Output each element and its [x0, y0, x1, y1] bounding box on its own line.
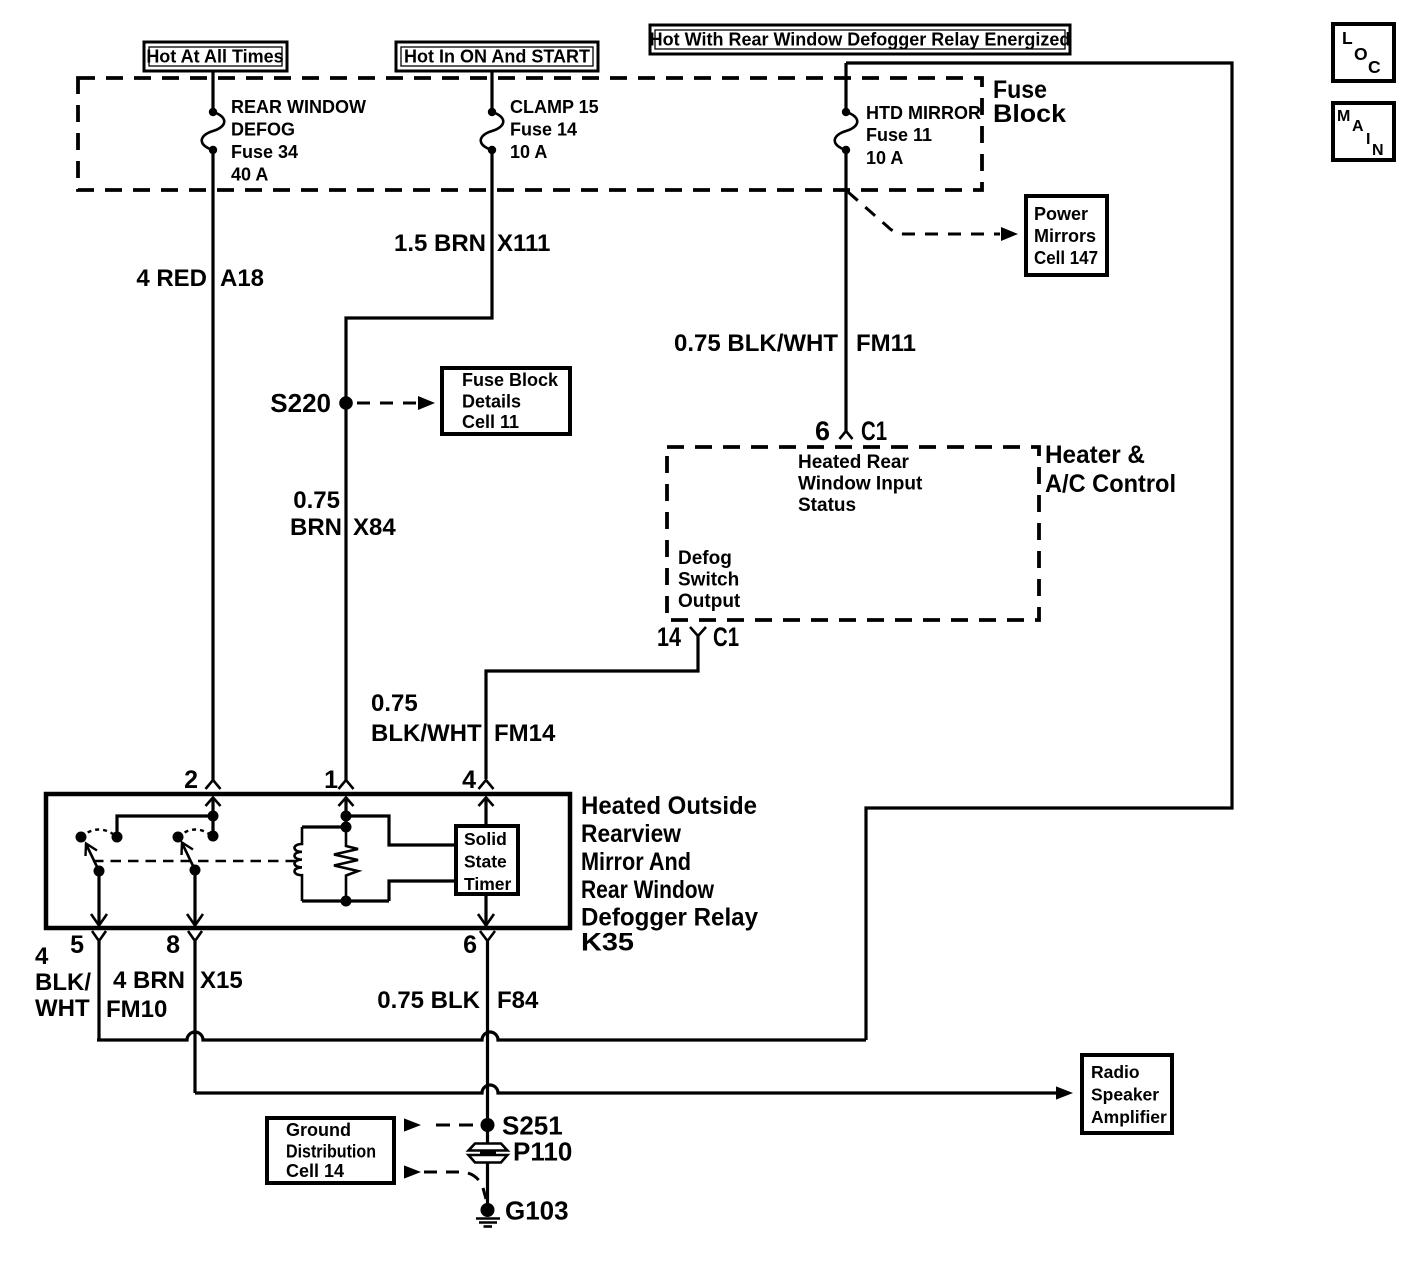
svg-text:C1: C1	[713, 622, 739, 652]
svg-text:Fuse 14: Fuse 14	[510, 120, 577, 140]
svg-text:Hot In ON And START: Hot In ON And START	[404, 47, 590, 67]
svg-text:A/C Control: A/C Control	[1045, 470, 1176, 498]
svg-text:X84: X84	[353, 514, 396, 541]
svg-text:4 BRN: 4 BRN	[113, 967, 185, 994]
svg-text:5: 5	[70, 931, 84, 959]
svg-text:Defog: Defog	[678, 548, 732, 569]
svg-text:Hot With Rear Window Defogger: Hot With Rear Window Defogger Relay Ener…	[650, 30, 1071, 50]
svg-text:1: 1	[324, 766, 338, 794]
svg-text:Fuse 34: Fuse 34	[231, 142, 298, 162]
svg-text:HTD MIRROR: HTD MIRROR	[866, 103, 981, 123]
svg-text:Switch: Switch	[678, 570, 739, 591]
svg-text:4 RED: 4 RED	[136, 265, 207, 292]
svg-text:Amplifier: Amplifier	[1091, 1107, 1167, 1127]
svg-text:Cell 147: Cell 147	[1034, 248, 1098, 268]
svg-text:G103: G103	[505, 1196, 569, 1226]
svg-text:10 A: 10 A	[510, 142, 547, 162]
svg-text:Heater &: Heater &	[1045, 441, 1145, 469]
svg-text:Status: Status	[798, 495, 856, 516]
svg-text:BRN: BRN	[290, 514, 342, 541]
svg-text:8: 8	[166, 931, 180, 959]
svg-text:Timer: Timer	[464, 874, 512, 894]
svg-text:Solid: Solid	[464, 829, 507, 849]
svg-text:A18: A18	[220, 265, 264, 292]
svg-text:REAR WINDOW: REAR WINDOW	[231, 97, 366, 117]
svg-text:Fuse 11: Fuse 11	[866, 125, 932, 145]
svg-text:40 A: 40 A	[231, 165, 268, 185]
svg-text:N: N	[1372, 142, 1384, 159]
svg-text:Fuse Block: Fuse Block	[462, 370, 559, 390]
svg-text:C: C	[1368, 57, 1381, 77]
svg-text:Heated Outside: Heated Outside	[581, 792, 757, 820]
svg-text:Mirror And: Mirror And	[581, 848, 691, 876]
svg-text:S220: S220	[270, 388, 331, 418]
svg-text:0.75: 0.75	[371, 690, 418, 717]
svg-text:4: 4	[35, 943, 49, 970]
svg-text:Block: Block	[993, 100, 1066, 128]
svg-text:Distribution: Distribution	[286, 1142, 376, 1162]
svg-text:Rearview: Rearview	[581, 820, 681, 848]
svg-text:K35: K35	[581, 929, 634, 957]
svg-text:Details: Details	[462, 392, 521, 412]
svg-text:6: 6	[463, 931, 477, 959]
svg-text:FM14: FM14	[494, 720, 556, 747]
svg-text:10 A: 10 A	[866, 148, 903, 168]
svg-text:Mirrors: Mirrors	[1034, 226, 1096, 246]
svg-text:0.75: 0.75	[293, 487, 340, 514]
svg-text:BLK/WHT: BLK/WHT	[371, 720, 482, 747]
svg-text:Power: Power	[1034, 204, 1088, 224]
svg-text:2: 2	[184, 766, 198, 794]
svg-text:Window Input: Window Input	[798, 474, 923, 495]
svg-text:X15: X15	[200, 967, 243, 994]
svg-text:BLK/: BLK/	[35, 969, 91, 996]
svg-text:Rear Window: Rear Window	[581, 876, 714, 904]
svg-text:4: 4	[462, 766, 476, 794]
svg-text:State: State	[464, 852, 507, 872]
svg-text:Defogger Relay: Defogger Relay	[581, 904, 758, 932]
svg-text:L: L	[1342, 28, 1353, 48]
svg-text:Cell 11: Cell 11	[462, 412, 519, 432]
svg-text:WHT: WHT	[35, 995, 90, 1022]
svg-text:C1: C1	[861, 416, 887, 446]
svg-text:0.75 BLK/WHT: 0.75 BLK/WHT	[674, 330, 838, 357]
svg-text:I: I	[1366, 131, 1370, 148]
svg-text:Hot At All Times: Hot At All Times	[146, 47, 283, 67]
svg-text:0.75 BLK: 0.75 BLK	[377, 987, 480, 1014]
svg-text:X111: X111	[497, 230, 550, 257]
svg-text:FM10: FM10	[106, 996, 167, 1023]
svg-text:P110: P110	[513, 1137, 572, 1167]
svg-text:F84: F84	[497, 987, 539, 1014]
svg-text:Heated Rear: Heated Rear	[798, 452, 909, 473]
svg-text:Radio: Radio	[1091, 1062, 1140, 1082]
svg-text:CLAMP 15: CLAMP 15	[510, 97, 599, 117]
svg-text:A: A	[1352, 118, 1364, 135]
svg-text:O: O	[1354, 44, 1368, 64]
svg-text:Speaker: Speaker	[1091, 1085, 1159, 1105]
svg-text:Output: Output	[678, 591, 741, 612]
svg-text:14: 14	[657, 622, 681, 652]
svg-text:Cell 14: Cell 14	[286, 1161, 344, 1181]
svg-text:FM11: FM11	[856, 330, 916, 357]
svg-text:M: M	[1337, 108, 1350, 125]
svg-text:1.5 BRN: 1.5 BRN	[394, 230, 486, 257]
svg-text:Ground: Ground	[286, 1120, 351, 1140]
svg-text:6: 6	[815, 416, 830, 446]
svg-text:DEFOG: DEFOG	[231, 120, 295, 140]
